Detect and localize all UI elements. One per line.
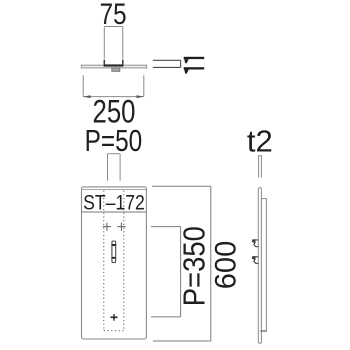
svg-text:P=50: P=50 xyxy=(85,123,143,157)
svg-text:ST–172: ST–172 xyxy=(83,191,145,215)
svg-text:t2: t2 xyxy=(247,124,273,159)
svg-text:75: 75 xyxy=(100,0,127,30)
svg-text:600: 600 xyxy=(209,241,242,290)
svg-text:P=350: P=350 xyxy=(178,226,212,306)
